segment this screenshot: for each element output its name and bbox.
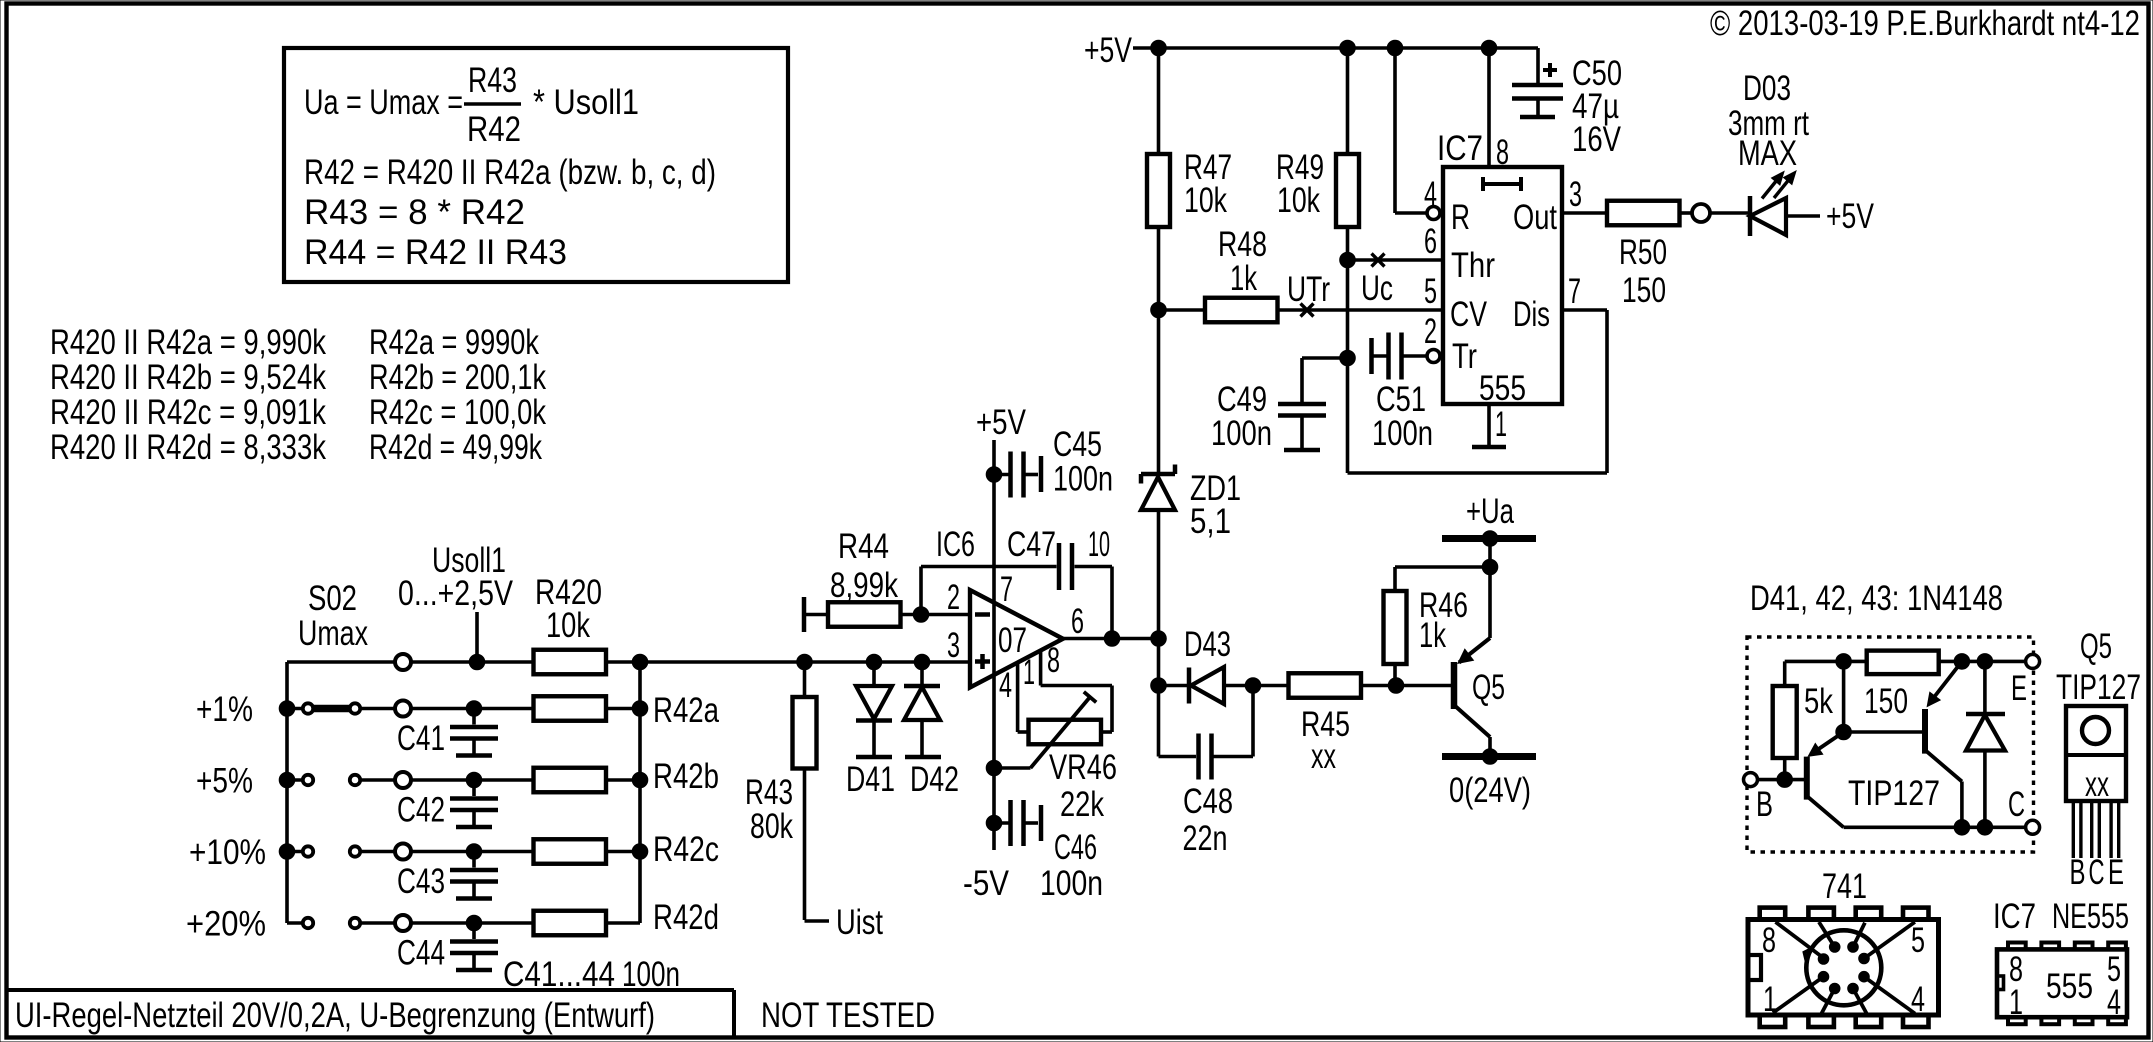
power 0(24V) rail xyxy=(1442,757,1536,811)
wire Dis loop xyxy=(1348,310,1608,473)
wire B to base xyxy=(1758,778,1807,782)
transistor T1 TIP127 internal xyxy=(1807,732,1844,827)
svg-text:R50: R50 xyxy=(1619,233,1667,272)
junction rail pin4 xyxy=(1387,40,1403,56)
wire R45 to Q5 base xyxy=(1361,684,1451,688)
capacitor C48 xyxy=(1159,686,1254,780)
svg-text:* Usoll1: * Usoll1 xyxy=(533,83,639,122)
svg-text:IC7: IC7 xyxy=(1993,897,2036,936)
junction cap node row +20% xyxy=(466,915,482,931)
switch S02 position +10% contacts xyxy=(287,850,640,854)
power +5V to IC6 xyxy=(976,403,1027,850)
junction cap node row +1% xyxy=(466,701,482,717)
junction R42a output xyxy=(632,701,648,717)
svg-text:2: 2 xyxy=(947,578,960,617)
resistor 150 internal xyxy=(1867,651,1939,675)
svg-text:R420 II R42c = 9,091k: R420 II R42c = 9,091k xyxy=(50,393,326,432)
label C47 10 xyxy=(1007,525,1110,564)
svg-text:UTr: UTr xyxy=(1287,270,1330,309)
package 741 can pins xyxy=(1818,942,1869,994)
svg-text:D41: D41 xyxy=(846,760,895,799)
title block box xyxy=(8,990,734,1037)
capacitor C42 xyxy=(450,780,498,827)
pin name Out xyxy=(1513,175,1582,237)
resistor R42a xyxy=(534,696,607,721)
svg-text:22k: 22k xyxy=(1060,785,1104,824)
svg-text:D42: D42 xyxy=(910,760,959,799)
capacitor C47 xyxy=(1059,543,1072,590)
svg-text:+1%: +1% xyxy=(196,690,253,729)
op-amp U IC6 07 triangle xyxy=(970,590,1063,688)
svg-text:+20%: +20% xyxy=(186,905,266,944)
svg-text:Uist: Uist xyxy=(836,903,883,942)
svg-text:100n: 100n xyxy=(1040,864,1103,903)
junction R44-C47 node xyxy=(913,607,929,623)
svg-text:4: 4 xyxy=(999,666,1012,705)
label R50 150 xyxy=(1619,233,1667,310)
switch S02 position +20% contacts xyxy=(287,921,640,925)
svg-text:R42b: R42b xyxy=(653,757,719,796)
svg-text:C41...44: C41...44 xyxy=(503,955,615,994)
label C51 100n xyxy=(1372,380,1433,453)
svg-text:10k: 10k xyxy=(1277,181,1320,220)
svg-text:1: 1 xyxy=(1763,980,1777,1019)
wire Usoll1 drop xyxy=(475,612,479,662)
svg-text:+Ua: +Ua xyxy=(1466,492,1514,531)
power +5V rail xyxy=(1084,31,1538,70)
svg-text:555: 555 xyxy=(1479,369,1526,408)
label C50 47u 16V xyxy=(1572,54,1622,159)
junction bus +1% xyxy=(279,701,295,717)
label R43 80k xyxy=(745,773,793,846)
switch S02 position +5% contacts xyxy=(287,778,640,782)
svg-text:8,99k: 8,99k xyxy=(830,566,898,605)
label Q5 TIP127 package xyxy=(2056,627,2141,707)
svg-text:1k: 1k xyxy=(1419,616,1446,655)
wire internal bottom rail xyxy=(1844,825,2026,829)
package Q5 TO-220 body xyxy=(2066,706,2126,804)
svg-text:S02: S02 xyxy=(308,579,357,618)
svg-text:0(24V): 0(24V) xyxy=(1449,771,1531,810)
junction output-ZD1 xyxy=(1151,631,1167,647)
switch S02 common contact xyxy=(395,654,411,670)
resistor R50 xyxy=(1562,201,1692,226)
svg-text:1: 1 xyxy=(2009,983,2023,1022)
label R48 1k xyxy=(1218,225,1267,298)
svg-text:100n: 100n xyxy=(1211,414,1272,453)
terminal C circle xyxy=(2026,820,2040,834)
pin name CV xyxy=(1424,272,1487,334)
resistor R49 xyxy=(1336,48,1359,260)
formula Ua = Umax = R43/R42 * Usoll1 xyxy=(304,61,639,149)
LED D03 xyxy=(1710,171,1820,236)
capacitor C44 xyxy=(450,923,498,970)
svg-text:R43 = 8 * R42: R43 = 8 * R42 xyxy=(304,193,525,232)
svg-text:5: 5 xyxy=(1424,272,1437,311)
label IC7 NE555 xyxy=(1993,897,2129,936)
svg-text:R42b = 200,1k: R42b = 200,1k xyxy=(369,358,546,397)
svg-text:D41, 42, 43: 1N4148: D41, 42, 43: 1N4148 xyxy=(1750,579,2003,618)
svg-text:Thr: Thr xyxy=(1451,246,1495,285)
svg-text:R42: R42 xyxy=(467,110,521,149)
switch S02 position +1% contacts xyxy=(287,707,640,711)
svg-text:R44: R44 xyxy=(838,527,889,566)
svg-text:150: 150 xyxy=(1622,271,1666,310)
package 741 DIP body xyxy=(1748,908,1939,1027)
label S02 Umax xyxy=(298,579,368,653)
svg-text:R42c: R42c xyxy=(653,830,719,869)
svg-text:1: 1 xyxy=(1023,653,1035,692)
svg-text:Umax: Umax xyxy=(298,614,368,653)
svg-text:5: 5 xyxy=(1911,921,1925,960)
junction rail R49 xyxy=(1340,40,1356,56)
label C41...44 100n xyxy=(503,955,680,994)
svg-text:10k: 10k xyxy=(1184,181,1227,220)
svg-text:xx: xx xyxy=(1311,737,1336,776)
label R46 1k xyxy=(1419,586,1468,655)
svg-text:Out: Out xyxy=(1513,198,1557,237)
diode D43 xyxy=(1159,667,1289,704)
wire +Ua to Q5 emitter xyxy=(1488,539,1492,639)
svg-text:xx: xx xyxy=(2085,765,2109,804)
junction diode bottom xyxy=(1977,820,1993,836)
resistor R420 xyxy=(534,650,607,675)
junction D43-R45-C48 xyxy=(1245,678,1261,694)
junction C46 node xyxy=(986,815,1002,831)
power +Ua xyxy=(1442,492,1536,539)
pin labels IC6 xyxy=(947,570,1084,705)
diode D41 xyxy=(856,662,892,757)
capacitor C50 xyxy=(1512,48,1563,117)
svg-text:R43: R43 xyxy=(468,61,517,100)
label C46 100n xyxy=(1040,828,1103,903)
junction C45 node xyxy=(986,467,1002,483)
svg-text:R42a: R42a xyxy=(653,691,719,730)
op-amp input polarity marks xyxy=(975,615,990,670)
capacitor C51 xyxy=(1372,333,1427,380)
svg-text:6: 6 xyxy=(1424,222,1437,261)
svg-text:D43: D43 xyxy=(1184,625,1231,664)
svg-text:+5V: +5V xyxy=(976,403,1027,442)
resistor R44 xyxy=(804,597,970,632)
wire S02 left bus xyxy=(285,662,289,923)
svg-text:C: C xyxy=(2089,853,2105,892)
inversion circle pin2 Tr xyxy=(1424,312,1477,376)
dotted box TIP127 xyxy=(1747,637,2034,852)
label R44 8,99k xyxy=(830,527,898,605)
svg-text:+5V: +5V xyxy=(1084,31,1132,70)
terminal circle R50-D03 xyxy=(1692,204,1710,222)
label R47 10k xyxy=(1184,148,1232,220)
resistor R46 xyxy=(1384,567,1491,686)
junction rail R47 xyxy=(1151,40,1167,56)
junction R42b output xyxy=(632,772,648,788)
svg-text:8: 8 xyxy=(1047,641,1060,680)
junction R48 left xyxy=(1151,302,1167,318)
diode D42 xyxy=(904,662,941,757)
potentiometer VR46 xyxy=(994,692,1112,768)
svg-text:C42: C42 xyxy=(397,791,445,830)
svg-text:22n: 22n xyxy=(1183,819,1228,858)
junction Q5 collector to 0V xyxy=(1482,749,1498,765)
svg-text:Q5: Q5 xyxy=(2080,627,2112,666)
wire C47 feedback loop xyxy=(921,567,1112,639)
svg-text:R42a = 9990k: R42a = 9990k xyxy=(369,323,539,362)
junction R46 top xyxy=(1482,559,1498,575)
junction R43 top xyxy=(797,654,813,670)
label BCE xyxy=(2070,853,2125,892)
resistor 5k xyxy=(1773,661,1797,779)
svg-text:10: 10 xyxy=(1088,525,1110,564)
resistor R42d xyxy=(534,911,607,936)
svg-text:C45: C45 xyxy=(1053,425,1102,464)
wire Thr xyxy=(1348,222,1496,285)
package 741 can circle xyxy=(1805,930,1882,1005)
svg-text:-5V: -5V xyxy=(963,864,1010,903)
svg-text:100n: 100n xyxy=(622,955,680,994)
junction +Ua xyxy=(1482,531,1498,547)
junction D43 anode node xyxy=(1151,678,1167,694)
capacitor C46 xyxy=(994,800,1041,846)
junction C49 C51 node xyxy=(1340,350,1356,366)
svg-text:8: 8 xyxy=(1762,921,1776,960)
svg-text:6: 6 xyxy=(1071,602,1084,641)
svg-text:TIP127: TIP127 xyxy=(1848,774,1940,813)
svg-text:E: E xyxy=(2011,669,2027,708)
svg-text:8: 8 xyxy=(1496,133,1509,172)
svg-text:R44 = R42 II R43: R44 = R42 II R43 xyxy=(304,233,567,272)
svg-text:Dis: Dis xyxy=(1513,295,1550,334)
svg-text:C44: C44 xyxy=(397,934,445,973)
terminal B circle xyxy=(1744,773,1758,787)
node Uist xyxy=(805,903,884,942)
svg-text:+10%: +10% xyxy=(189,833,266,872)
node Usoll1 xyxy=(398,541,514,613)
label VR46 22k xyxy=(1049,748,1117,824)
svg-text:741: 741 xyxy=(1822,867,1867,906)
junction R46 bottom xyxy=(1388,678,1404,694)
junction bus +10% xyxy=(279,844,295,860)
svg-text:100n: 100n xyxy=(1053,460,1113,499)
wire reset pin4 xyxy=(1395,48,1437,214)
label D03 3mm rt MAX xyxy=(1728,69,1809,173)
resistor R48 xyxy=(1159,298,1444,323)
label ZD1 5,1 xyxy=(1190,469,1241,541)
svg-text:TIP127: TIP127 xyxy=(2056,668,2141,707)
svg-text:C: C xyxy=(2008,785,2025,824)
wire offset null pin8 xyxy=(1041,651,1112,733)
svg-text:C41: C41 xyxy=(397,719,445,758)
svg-text:R42 = R420 II R42a (bzw. b, c: R42 = R420 II R42a (bzw. b, c, d) xyxy=(304,153,716,192)
svg-text:+5%: +5% xyxy=(196,762,253,801)
svg-text:MAX: MAX xyxy=(1738,134,1797,173)
svg-text:+5V: +5V xyxy=(1826,197,1874,236)
svg-text:5,1: 5,1 xyxy=(1190,502,1231,541)
wire op-amp output xyxy=(1063,637,1159,641)
svg-text:150: 150 xyxy=(1864,682,1908,721)
table R42a-d values xyxy=(369,323,546,467)
svg-text:7: 7 xyxy=(1000,570,1013,609)
capacitor C45 xyxy=(994,452,1041,498)
ground pin1 555 xyxy=(1472,404,1507,447)
wire T2 base link xyxy=(1844,661,1925,732)
label R420 10k xyxy=(535,573,602,645)
label D41 D42 xyxy=(846,760,959,799)
pin labels NE555 xyxy=(2009,950,2121,1022)
inversion circle pin4 R xyxy=(1427,207,1440,220)
wire 150 to E xyxy=(1939,660,2026,664)
resistor R43 xyxy=(793,662,817,920)
junction C47-output xyxy=(1104,631,1120,647)
wire pin8 to 555 xyxy=(1489,48,1509,172)
resistor R42b xyxy=(534,768,607,793)
svg-text:100n: 100n xyxy=(1372,414,1433,453)
svg-text:B: B xyxy=(1756,785,1773,824)
svg-text:3: 3 xyxy=(947,626,960,665)
svg-text:Ua = Umax =: Ua = Umax = xyxy=(304,83,463,122)
measure mark Uc xyxy=(1361,254,1393,309)
svg-text:R42c = 100,0k: R42c = 100,0k xyxy=(369,393,546,432)
svg-text:16V: 16V xyxy=(1572,120,1622,159)
junction bus +5% xyxy=(279,772,295,788)
reset indicator bar xyxy=(1483,177,1521,191)
IC U IC7 555 box xyxy=(1443,167,1562,404)
svg-text:R42d: R42d xyxy=(653,898,719,937)
svg-text:C46: C46 xyxy=(1054,828,1097,867)
svg-text:© 2013-03-19 P.E.Burkhardt nt4: © 2013-03-19 P.E.Burkhardt nt4-12 xyxy=(1710,4,2140,43)
svg-text:7: 7 xyxy=(1568,272,1581,311)
svg-text:5k: 5k xyxy=(1804,682,1833,721)
svg-text:R420 II R42a = 9,990k: R420 II R42a = 9,990k xyxy=(50,323,326,362)
junction top rail T2 base node xyxy=(1836,654,1852,670)
svg-text:C43: C43 xyxy=(397,862,445,901)
svg-text:IC7: IC7 xyxy=(1437,129,1483,168)
package 741 pin mapping lines xyxy=(1773,922,1915,1014)
svg-text:0...+2,5V: 0...+2,5V xyxy=(398,574,514,613)
svg-text:4: 4 xyxy=(2107,983,2121,1022)
label C49 100n xyxy=(1211,380,1272,453)
junction cap node row +10% xyxy=(466,844,482,860)
svg-text:E: E xyxy=(2108,853,2124,892)
junction T2 emitter xyxy=(1954,654,1970,670)
svg-text:R42d = 49,99k: R42d = 49,99k xyxy=(369,428,542,467)
svg-text:80k: 80k xyxy=(750,807,793,846)
svg-text:C47: C47 xyxy=(1007,525,1056,564)
svg-text:R420 II R42d = 8,333k: R420 II R42d = 8,333k xyxy=(50,428,326,467)
svg-text:IC6: IC6 xyxy=(936,525,975,564)
svg-text:3: 3 xyxy=(1569,175,1582,214)
label R49 10k xyxy=(1276,148,1324,220)
package NE555 DIP body xyxy=(1997,943,2127,1025)
wire R49 node down xyxy=(1346,260,1350,473)
measure mark UTr xyxy=(1287,270,1330,317)
transistor Q5 xyxy=(1454,638,1490,757)
table R420 parallel values xyxy=(50,323,326,467)
junction cap node row +5% xyxy=(466,772,482,788)
svg-text:R: R xyxy=(1451,198,1470,237)
svg-text:CV: CV xyxy=(1450,295,1487,334)
diode internal TIP127 xyxy=(1966,661,2005,827)
junction diode top xyxy=(1977,654,1993,670)
pin labels 741 xyxy=(1762,921,1925,1019)
pin name Dis xyxy=(1513,272,1581,334)
junction T2 collector bottom xyxy=(1954,820,1970,836)
wire Umax common row xyxy=(287,660,640,664)
svg-text:4: 4 xyxy=(1911,980,1925,1019)
transistor T2 TIP127 internal xyxy=(1925,661,1962,827)
svg-text:NOT TESTED: NOT TESTED xyxy=(761,996,935,1035)
resistor R47 xyxy=(1147,48,1170,310)
junction T1 emitter node xyxy=(1836,724,1852,740)
junction R420 output xyxy=(632,654,648,670)
junction 5k bottom xyxy=(1777,772,1793,788)
junction Thr node xyxy=(1340,252,1356,268)
zener diode ZD1 xyxy=(1141,310,1175,757)
capacitor C49 xyxy=(1278,358,1348,450)
wire offset null pin1 xyxy=(1016,663,1020,733)
svg-text:555: 555 xyxy=(2046,967,2093,1006)
junction R42c output xyxy=(632,844,648,860)
svg-text:UI-Regel-Netzteil 20V/0,2A, U-: UI-Regel-Netzteil 20V/0,2A, U-Begrenzung… xyxy=(15,996,655,1035)
wire main summing line xyxy=(640,660,970,664)
svg-text:Tr: Tr xyxy=(1452,337,1477,376)
svg-text:1: 1 xyxy=(1495,405,1507,444)
junction Usoll1-R420 xyxy=(469,654,485,670)
svg-text:10k: 10k xyxy=(546,606,590,645)
svg-text:VR46: VR46 xyxy=(1049,748,1117,787)
label R45 xx xyxy=(1301,705,1350,776)
package Q5 legs xyxy=(2073,801,2118,858)
junction rail pin8 xyxy=(1481,40,1497,56)
resistor R42c xyxy=(534,839,607,864)
wire right bus xyxy=(638,662,642,923)
svg-text:2: 2 xyxy=(1424,312,1437,351)
resistor R45 xyxy=(1289,673,1362,698)
svg-text:Uc: Uc xyxy=(1361,269,1393,308)
terminal E circle xyxy=(2026,654,2040,668)
junction VR46 wiper node xyxy=(986,760,1002,776)
svg-text:B: B xyxy=(2070,853,2086,892)
svg-text:C48: C48 xyxy=(1183,782,1233,821)
capacitor C41 xyxy=(450,709,498,756)
junction D42 top xyxy=(914,654,930,670)
svg-text:Q5: Q5 xyxy=(1472,668,1505,707)
formula box xyxy=(284,48,788,282)
svg-text:NE555: NE555 xyxy=(2052,897,2129,936)
svg-text:R420 II R42b = 9,524k: R420 II R42b = 9,524k xyxy=(50,358,326,397)
label C48 22n xyxy=(1183,782,1234,858)
wire internal top rail xyxy=(1785,660,1867,664)
svg-text:1k: 1k xyxy=(1230,259,1257,298)
capacitor C43 xyxy=(450,852,498,899)
svg-text:D03: D03 xyxy=(1743,69,1791,108)
label C45 100n xyxy=(1053,425,1113,499)
junction D41 top xyxy=(866,654,882,670)
